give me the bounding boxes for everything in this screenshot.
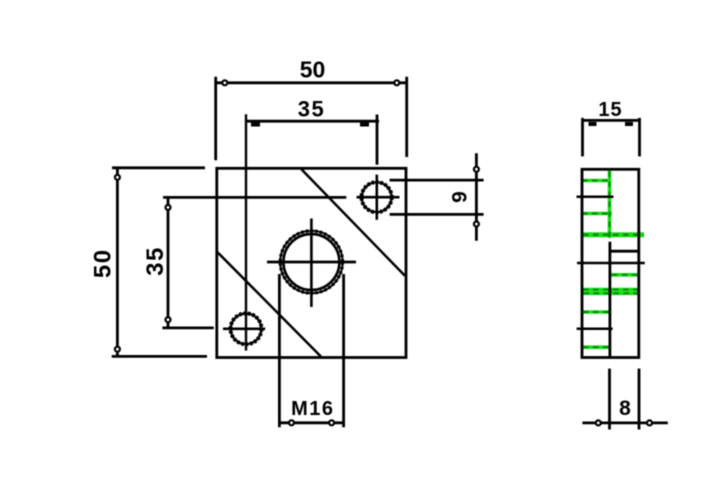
svg-text:8: 8 <box>619 397 631 420</box>
svg-text:50: 50 <box>90 248 117 278</box>
svg-text:35: 35 <box>298 96 325 121</box>
svg-text:50: 50 <box>300 57 326 83</box>
svg-text:15: 15 <box>598 99 622 121</box>
svg-text:9: 9 <box>449 191 472 203</box>
svg-text:M16: M16 <box>291 398 334 420</box>
svg-text:35: 35 <box>142 246 169 276</box>
